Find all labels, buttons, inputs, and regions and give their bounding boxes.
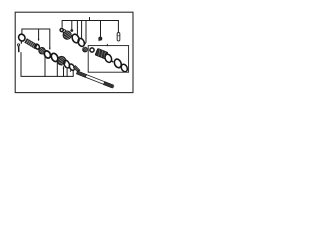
housing cup rim xyxy=(104,53,113,63)
axle spline stub xyxy=(73,65,80,72)
damper cylinder xyxy=(25,39,37,49)
leader to damper cylinder xyxy=(38,29,40,40)
grease bolt xyxy=(98,37,102,41)
callout bracket top-left xyxy=(22,29,50,49)
arrowhead ball B1 leader xyxy=(49,48,51,50)
inner joint housing xyxy=(95,48,108,59)
ring C xyxy=(113,58,123,69)
ring R5 tail xyxy=(69,70,72,72)
boot clamp ring R3 xyxy=(50,52,59,62)
cotter pin xyxy=(18,44,20,52)
inset box inner joint xyxy=(88,46,128,73)
tick on inset box top edge xyxy=(106,44,108,45)
axle shaft xyxy=(76,71,114,89)
leader to ring R2 xyxy=(44,55,46,76)
leader to ring R3 xyxy=(56,62,58,76)
leader to clamp B xyxy=(81,21,83,39)
leader to spacer B4 xyxy=(84,21,87,44)
hub nut xyxy=(90,48,94,52)
outer frame xyxy=(15,12,133,92)
boot clamp ringB xyxy=(77,37,86,47)
outboard boot B3 xyxy=(63,31,72,40)
leader to clamp A xyxy=(76,21,78,35)
arrowhead damper leader xyxy=(38,39,40,41)
snap ring R1 xyxy=(17,33,27,44)
grease capsule xyxy=(117,33,120,41)
boot small clamp xyxy=(63,30,66,33)
leader to grease bolt xyxy=(100,21,102,37)
ring R4 xyxy=(63,59,71,69)
boot ball B2 xyxy=(57,56,66,65)
small ring top-mid xyxy=(60,28,63,31)
callout bracket bottom xyxy=(21,53,73,77)
leader to ring R4 xyxy=(66,69,68,76)
leader to ball B2 xyxy=(63,67,65,77)
leader uptick xyxy=(89,18,91,21)
boot clamp ringA xyxy=(71,33,81,44)
ring R5 xyxy=(68,63,75,71)
ring R2 xyxy=(43,50,52,59)
spider ball B1 xyxy=(39,47,46,54)
housing stub xyxy=(111,60,113,62)
washer dot xyxy=(70,29,73,32)
callout bracket top-right xyxy=(62,21,118,33)
cylinder end ring xyxy=(34,43,40,49)
ring D xyxy=(120,63,128,72)
spacer ball B4 xyxy=(83,47,88,52)
arrowhead ball B2 leader xyxy=(63,66,65,68)
leader to washer dot xyxy=(71,21,73,30)
